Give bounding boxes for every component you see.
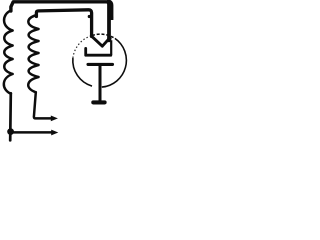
arrow terminal (upper, pointing right) (51, 116, 58, 122)
tube V1 envelope: dashed top arc (92, 34, 115, 38)
tube V1 envelope: dotted upper-left arc (73, 36, 92, 59)
grid right arm up to wire (110, 40, 112, 55)
junction dot (7, 128, 14, 135)
wire top: L1 top across to tube, down right side (11, 2, 109, 41)
plate lead down (99, 64, 102, 100)
coil L2 (right winding, 6 loops) (28, 15, 38, 92)
blob on grid lead wire right side (110, 16, 114, 20)
wire: junction to lower arrow terminal (11, 131, 52, 134)
wire1 right vertical thicker overlay (107, 5, 111, 41)
wire: L2 top lead to tube filament (36, 10, 91, 37)
plate bar (88, 63, 113, 66)
blob on filament lead wire left side (88, 15, 91, 18)
coil L1 (left winding, 5 loops) (4, 11, 13, 94)
wire: L1 bottom lead down past junction (9, 93, 12, 140)
tube V1 envelope: solid right arc (102, 38, 127, 87)
junction blob filament to grid lead (107, 37, 111, 41)
tube V1 envelope: solid left/bottom arc (73, 58, 92, 86)
wire1 corner patch (107, 2, 111, 20)
grid (bar with left tick) (86, 48, 111, 55)
wire: L2 bottom to upper arrow terminal (34, 92, 51, 118)
filament (V shape) (92, 36, 109, 46)
arrow terminal (lower, pointing right) (51, 130, 58, 136)
plate terminal bar (93, 100, 104, 104)
